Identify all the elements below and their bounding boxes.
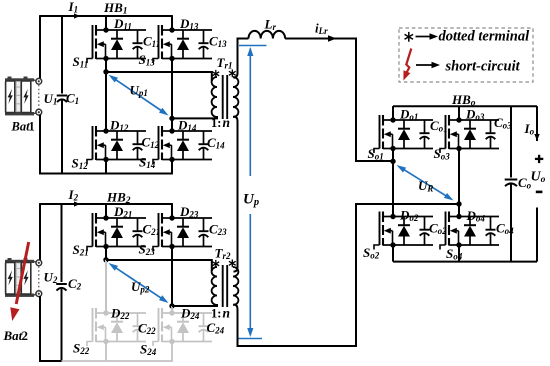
label iLr xyxy=(315,21,328,37)
wire S21 drain stub xyxy=(105,203,107,218)
svg-text:1: 1 xyxy=(29,120,35,134)
wire HB1 top rail xyxy=(40,15,172,17)
battery Bat1 xyxy=(5,77,42,116)
wire So4 source to bottom rail xyxy=(458,245,460,262)
wire HB2 top rail xyxy=(40,203,172,205)
svg-text:C23: C23 xyxy=(209,222,227,238)
svg-text:dotted terminal: dotted terminal xyxy=(439,29,530,45)
svg-text:D24: D24 xyxy=(180,306,200,322)
wire node B2 to Tr2 primary bottom xyxy=(172,304,217,306)
label Uo xyxy=(531,170,546,186)
svg-text:Up1: Up1 xyxy=(130,83,148,99)
svg-text:Io: Io xyxy=(524,121,535,137)
label D21 xyxy=(113,204,132,220)
label Up xyxy=(243,192,259,209)
wire Lr to HBo corner xyxy=(285,39,393,162)
label C1 xyxy=(66,91,79,107)
svg-text:Tr2: Tr2 xyxy=(215,246,231,262)
label C12 xyxy=(142,135,160,151)
capacitor C1 xyxy=(57,96,68,103)
label Do3 xyxy=(465,107,485,123)
label So1 xyxy=(368,146,384,162)
svg-text:C14: C14 xyxy=(207,135,225,151)
voltage measure Up line upper xyxy=(247,47,253,176)
svg-text:Co3: Co3 xyxy=(494,115,512,131)
wire S11 source to node A xyxy=(105,59,107,73)
wire S13 source to node B xyxy=(171,59,173,119)
svg-text:D12: D12 xyxy=(109,118,129,134)
legend text short-circuit xyxy=(445,59,521,75)
label So4 xyxy=(446,246,463,262)
svg-text:n: n xyxy=(223,115,231,130)
svg-text:Up: Up xyxy=(243,192,259,209)
svg-text:C24: C24 xyxy=(207,320,225,336)
wire Tr1 secondary top to Lr xyxy=(234,39,249,78)
svg-text:So2: So2 xyxy=(363,245,380,261)
capacitor Co bottom lead xyxy=(510,183,512,262)
label HB2 xyxy=(106,190,131,207)
current arrow I2 xyxy=(74,201,80,206)
label C21 xyxy=(143,222,161,238)
wire Bat2 positive lead xyxy=(39,203,41,260)
wire S23 source to node B2 xyxy=(171,247,173,307)
current arrow Io xyxy=(534,134,539,141)
legend asterisk xyxy=(405,32,414,42)
short-circuit arrow across Bat2 xyxy=(10,242,28,321)
wire HB1 bottom rail xyxy=(39,173,173,175)
wire Tr1 secondary bottom to Tr2 secondary top xyxy=(234,116,238,271)
current arrow iLr xyxy=(328,35,337,41)
label Up1 xyxy=(130,83,148,99)
label C14 xyxy=(207,135,225,151)
label D14 xyxy=(177,118,197,134)
wire HBo bottom rail xyxy=(393,261,537,263)
dotted terminal asterisk Tr1 primary xyxy=(212,70,219,78)
label Tr1 xyxy=(217,55,233,71)
svg-text:Do4: Do4 xyxy=(466,208,486,224)
capacitor Co top lead xyxy=(510,106,512,177)
wire So3 source to node oB xyxy=(458,149,460,205)
svg-text:short-circuit: short-circuit xyxy=(445,59,521,75)
wire node A to Tr1 primary top xyxy=(106,72,212,81)
switch cell S12 xyxy=(87,126,146,164)
svg-text:S13: S13 xyxy=(139,52,156,68)
wire S21 source to node A2 xyxy=(105,247,107,261)
label 1:n Tr2 xyxy=(211,306,230,321)
switch cell S14 xyxy=(153,126,212,164)
label D13 xyxy=(179,16,199,32)
wire node B2 down grey xyxy=(171,306,173,313)
svg-text:I2: I2 xyxy=(68,187,79,203)
svg-text:U2: U2 xyxy=(44,270,58,286)
svg-text:S21: S21 xyxy=(73,242,89,258)
label D24 xyxy=(180,306,200,322)
wire node A2 down grey xyxy=(105,260,107,313)
capacitor C2 xyxy=(56,284,67,291)
svg-text:1:: 1: xyxy=(211,116,221,130)
wire S22 source to grey rail xyxy=(105,342,107,362)
svg-text:C13: C13 xyxy=(209,34,227,50)
wire Bat1 positive lead xyxy=(39,15,41,79)
label I2 xyxy=(68,187,79,203)
capacitor C1 top lead xyxy=(61,15,63,93)
wire node oB to So4 drain xyxy=(458,204,460,217)
svg-text:Lr: Lr xyxy=(264,17,277,33)
svg-text:C1: C1 xyxy=(66,91,79,107)
svg-text:Tr1: Tr1 xyxy=(217,55,233,71)
label Co3 xyxy=(494,115,512,131)
svg-text:C2: C2 xyxy=(68,276,82,292)
switch cell So2 xyxy=(374,212,433,250)
voltage measure Up top tick xyxy=(239,45,267,47)
label D22 xyxy=(110,306,130,322)
svg-text:D14: D14 xyxy=(177,118,197,134)
voltage arrow Up1 xyxy=(109,75,169,116)
svg-text:So4: So4 xyxy=(446,246,463,262)
svg-text:C22: C22 xyxy=(138,321,156,337)
legend text dotted terminal xyxy=(439,29,530,45)
wire output branch upper xyxy=(536,106,538,141)
svg-text:S11: S11 xyxy=(73,54,89,70)
svg-text:Do1: Do1 xyxy=(399,107,418,123)
svg-text:Do3: Do3 xyxy=(465,107,485,123)
label S21 xyxy=(73,242,89,258)
svg-text:n: n xyxy=(223,306,231,321)
svg-text:iLr: iLr xyxy=(315,21,328,37)
svg-text:Co2: Co2 xyxy=(429,221,447,237)
label Bat2 xyxy=(3,328,29,343)
svg-text:C12: C12 xyxy=(142,135,160,151)
label C13 xyxy=(209,34,227,50)
dotted terminal asterisk Tr2 secondary xyxy=(229,259,236,267)
node B xyxy=(169,116,174,121)
transformer Tr2 xyxy=(212,265,239,307)
label Tr2 xyxy=(215,246,231,262)
dotted terminal asterisk Tr1 secondary xyxy=(229,69,236,77)
wire So1 source to node oA xyxy=(392,149,394,162)
dotted terminal asterisk Tr2 primary xyxy=(212,260,219,268)
legend arrow dotted-terminal xyxy=(416,33,439,39)
label So2 xyxy=(363,245,380,261)
label HBo xyxy=(451,92,476,109)
label I1 xyxy=(68,0,79,15)
svg-text:Bat: Bat xyxy=(11,120,31,134)
label U2 xyxy=(44,270,58,286)
capacitor C2 bottom lead xyxy=(61,288,63,362)
svg-text:Uo: Uo xyxy=(531,170,546,186)
node oA xyxy=(390,159,395,164)
label So3 xyxy=(434,146,451,162)
wire S13 drain stub xyxy=(171,15,173,30)
wire Bat1 negative lead xyxy=(39,115,41,175)
node A xyxy=(103,69,108,74)
legend box xyxy=(399,28,533,82)
label Co xyxy=(518,175,532,191)
current arrow I1 xyxy=(74,13,80,18)
label D12 xyxy=(109,118,129,134)
label Co1 xyxy=(430,118,448,134)
switch cell S24 (inactive) xyxy=(153,308,212,346)
svg-text:D23: D23 xyxy=(179,204,199,220)
svg-text:Bat: Bat xyxy=(3,328,23,343)
label Do1 xyxy=(399,107,418,123)
wire S14 source to bottom rail xyxy=(171,160,173,174)
wire S12 source to bottom rail xyxy=(105,160,107,174)
label Io xyxy=(524,121,535,137)
label C11 xyxy=(143,34,160,50)
label S14 xyxy=(139,155,156,171)
label Lr xyxy=(264,17,277,33)
node B2 xyxy=(169,303,174,308)
wire Tr2 secondary bottom to return rail xyxy=(234,204,460,346)
label C23 xyxy=(209,222,227,238)
svg-text:S12: S12 xyxy=(72,156,89,172)
label 1:n Tr1 xyxy=(211,115,230,130)
svg-text:S24: S24 xyxy=(140,342,157,358)
node A2 xyxy=(103,257,108,262)
wire So1 drain stub xyxy=(392,106,394,120)
svg-text:U1: U1 xyxy=(44,91,58,107)
switch cell S23 xyxy=(153,213,212,251)
label minus xyxy=(536,191,543,194)
wire So3 drain stub xyxy=(458,106,460,120)
wire S11 drain stub xyxy=(105,15,107,30)
label C2 xyxy=(68,276,82,292)
svg-text:Up2: Up2 xyxy=(131,279,150,295)
label UR xyxy=(418,178,433,194)
wire node A2 to Tr2 primary top xyxy=(106,260,212,271)
svg-text:D11: D11 xyxy=(113,16,132,32)
label Co4 xyxy=(496,221,514,237)
svg-text:D13: D13 xyxy=(179,16,199,32)
label Do2 xyxy=(399,208,419,224)
inductor Lr xyxy=(249,31,286,39)
capacitor C2 top lead xyxy=(61,203,63,282)
label Up2 xyxy=(131,279,150,295)
label S11 xyxy=(73,54,89,70)
label HB1 xyxy=(103,0,128,17)
wire Bat2 negative lead xyxy=(40,296,62,361)
label S23 xyxy=(139,242,156,258)
switch cell So1 xyxy=(374,115,433,153)
label S13 xyxy=(139,52,156,68)
svg-text:UR: UR xyxy=(418,178,433,194)
transformer Tr1 xyxy=(212,75,239,119)
svg-text:S23: S23 xyxy=(139,242,156,258)
label D11 xyxy=(113,16,132,32)
battery Bat2 xyxy=(5,258,42,297)
voltage measure Up bottom tick xyxy=(238,338,262,340)
label Do4 xyxy=(466,208,486,224)
label S22 xyxy=(73,341,90,357)
label Co2 xyxy=(429,221,447,237)
capacitor Co xyxy=(505,180,518,187)
svg-text:I1: I1 xyxy=(68,0,79,15)
switch cell S13 xyxy=(153,25,212,63)
label plus xyxy=(535,155,543,163)
switch cell S21 xyxy=(87,213,146,251)
svg-text:HB1: HB1 xyxy=(103,0,128,17)
label Bat1 xyxy=(11,120,35,134)
node oB xyxy=(456,201,461,206)
voltage arrow UR xyxy=(397,165,454,201)
legend short-circuit red arrow xyxy=(403,49,411,81)
wire output branch lower xyxy=(536,208,538,262)
wire node A to S12 drain xyxy=(105,72,107,131)
legend arrow short-circuit xyxy=(416,62,440,68)
voltage measure Up line lower xyxy=(247,214,253,337)
wire So2 source to bottom rail xyxy=(392,245,394,262)
wire node oA to So2 drain xyxy=(392,161,394,216)
switch cell S22 (inactive) xyxy=(87,308,146,346)
svg-text:D21: D21 xyxy=(113,204,132,220)
svg-text:2: 2 xyxy=(22,328,29,343)
svg-text:S14: S14 xyxy=(139,155,156,171)
svg-text:1:: 1: xyxy=(211,307,221,321)
label D23 xyxy=(179,204,199,220)
switch cell So3 xyxy=(440,115,499,153)
capacitor C1 bottom lead xyxy=(61,99,63,174)
wire S24 source to grey rail xyxy=(171,342,173,362)
switch cell So4 xyxy=(440,212,499,250)
label U1 xyxy=(44,91,58,107)
svg-text:D22: D22 xyxy=(110,306,130,322)
svg-text:Do2: Do2 xyxy=(399,208,419,224)
wire node B to Tr1 primary bottom xyxy=(172,116,217,118)
switch cell S11 xyxy=(87,25,146,63)
label S12 xyxy=(72,156,89,172)
voltage arrow Up2 xyxy=(109,263,169,303)
label C24 xyxy=(207,320,225,336)
label S24 xyxy=(140,342,157,358)
wire node B to S14 drain xyxy=(171,118,173,131)
grey bottom rail HB2 xyxy=(62,360,173,362)
wire HBo top rail xyxy=(393,105,537,107)
label C22 xyxy=(138,321,156,337)
wire S23 drain stub xyxy=(171,203,173,218)
svg-text:C21: C21 xyxy=(143,222,161,238)
